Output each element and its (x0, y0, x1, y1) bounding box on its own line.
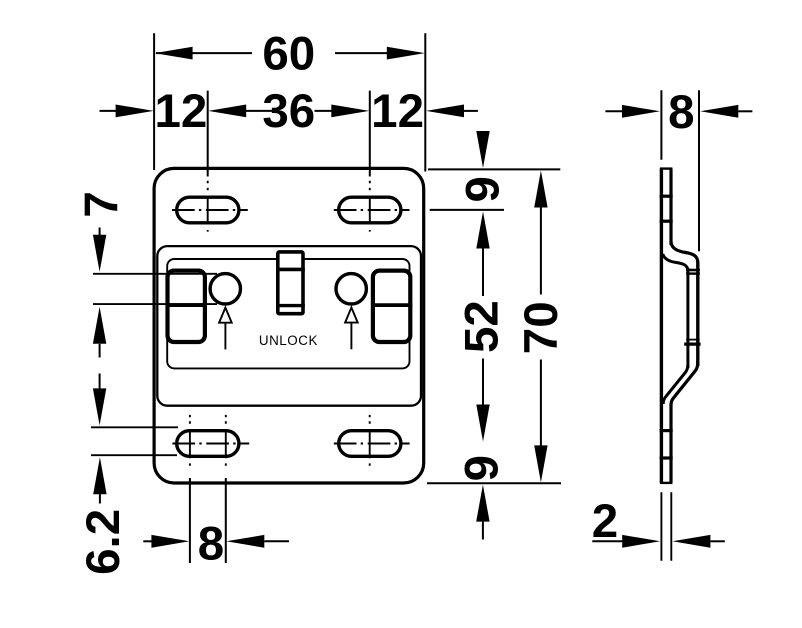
dim 2 extension line left (660, 492, 662, 561)
right side: plate bottom edge extension (427, 482, 561, 484)
dim 7 down arrow (99, 228, 101, 237)
svg-text:12: 12 (154, 85, 207, 138)
centerline horizontal slot top-right (334, 209, 410, 211)
latch divider 2 (276, 304, 305, 307)
inner panel rounded rect (167, 259, 409, 368)
side view flange tick top slot a (660, 195, 673, 198)
side view bulge tick 2 (686, 272, 700, 274)
dim 52 bottom arrow (down) (482, 359, 484, 405)
centerline vertical slot bottom-right (369, 415, 371, 466)
extension line left of 60 dim (153, 33, 155, 170)
centerline vertical slot bottom-left a (189, 415, 191, 466)
dim 70 line top arrow (534, 171, 547, 208)
dim 36 left arrow (208, 105, 246, 118)
dim 8 side left arrow (605, 110, 622, 112)
svg-text:8: 8 (668, 86, 694, 139)
svg-text:60: 60 (262, 28, 315, 81)
lock body rounded rect (157, 246, 421, 406)
slot bottom-right (339, 431, 401, 457)
side view bulge tick 1 (686, 269, 700, 272)
leader line D (91, 454, 177, 456)
dim 6.2 up arrow (93, 457, 106, 494)
dim row rightmost arrow (426, 105, 464, 118)
dim 8 side right arrow (700, 105, 738, 118)
side view flange tick bottom slot b (660, 456, 673, 459)
dim 9 bottom up arrow (476, 485, 489, 522)
dim 8 side extension line right (698, 90, 700, 251)
side view outer S-curve bottom (671, 361, 698, 405)
side view outer S-curve top (671, 242, 698, 263)
dim 2 extension line right (670, 492, 672, 561)
dim 9 top down arrow (476, 131, 489, 168)
side view bulge face (696, 262, 699, 366)
svg-text:6.2: 6.2 (77, 509, 130, 575)
side view flange tick top slot b (660, 220, 673, 223)
side view top cap (660, 167, 673, 169)
side view bottom flange right edge (669, 403, 672, 483)
svg-text:7: 7 (76, 191, 129, 217)
centerline vertical slot bottom-left b (225, 415, 227, 466)
right guide block (373, 271, 410, 342)
extension line hole right (369, 91, 371, 177)
left guide divider (166, 303, 207, 307)
dim 60 line left arrow (155, 47, 193, 60)
dim 2 right arrow (672, 535, 710, 548)
left guide block (168, 271, 205, 342)
dim 8 bottom right arrow (226, 535, 264, 548)
centerline horizontal slot bottom-left (172, 443, 249, 445)
dim 52 top arrow (up) (476, 212, 489, 249)
leader line A (93, 273, 217, 275)
extension line hole left (207, 91, 209, 177)
side view bottom cap (660, 482, 673, 484)
dim 8 bottom extension line a (189, 478, 191, 563)
svg-text:8: 8 (198, 517, 224, 570)
centerline vertical slot top-left (207, 181, 209, 234)
side view flange tick bottom slot a (660, 429, 673, 432)
right side: plate top edge extension (428, 168, 560, 170)
centerline horizontal slot bottom-right (334, 443, 410, 445)
centerline horizontal slot top-left (172, 209, 248, 211)
dim 8 side extension line left (660, 90, 662, 160)
latch tab (278, 252, 303, 314)
dim 60 line right arrow (387, 47, 425, 60)
dim 8 bottom left arrow (143, 540, 153, 542)
extension line right of 60 dim (424, 33, 426, 171)
svg-text:UNLOCK: UNLOCK (259, 333, 318, 348)
leader line C (91, 426, 178, 428)
svg-text:9: 9 (456, 455, 509, 481)
left push button circle (210, 274, 240, 304)
left unlock arrow (219, 308, 232, 323)
svg-text:12: 12 (371, 85, 424, 138)
dim 7 up arrow (93, 307, 106, 344)
right side: top slot centerline extension (430, 209, 504, 211)
slot top-left (177, 197, 239, 223)
side view bulge tick 3 (686, 339, 699, 341)
side view inner S-curve top (663, 254, 688, 271)
svg-text:52: 52 (456, 300, 509, 353)
plate outline (front view 60x70) (154, 168, 424, 483)
side view inner bulge line (686, 268, 689, 368)
right unlock arrow (345, 308, 358, 323)
right push button circle (336, 274, 366, 304)
dim 36 right arrow (315, 110, 334, 112)
dim 8 bottom extension line b (225, 478, 227, 563)
dim 6.2 down arrow (99, 374, 101, 390)
latch divider 1 (276, 268, 305, 272)
right guide divider (371, 303, 412, 307)
svg-text:70: 70 (515, 301, 568, 354)
slot bottom-left (177, 431, 239, 457)
side view bulge tick 4 (684, 343, 700, 346)
centerline vertical slot top-right (369, 181, 371, 234)
side view left face (660, 169, 663, 483)
dim row 12/36/12 leftmost arrow (100, 110, 118, 112)
side view top flange right edge (669, 169, 672, 245)
slot top-right (339, 197, 401, 223)
leader line B (93, 303, 217, 305)
dim 70 line bottom arrow (540, 360, 542, 446)
svg-text:2: 2 (592, 495, 618, 548)
side view inner S-curve bottom (663, 365, 688, 404)
svg-text:36: 36 (262, 85, 315, 138)
dim 2 left arrow (592, 540, 623, 542)
svg-text:9: 9 (456, 176, 509, 202)
